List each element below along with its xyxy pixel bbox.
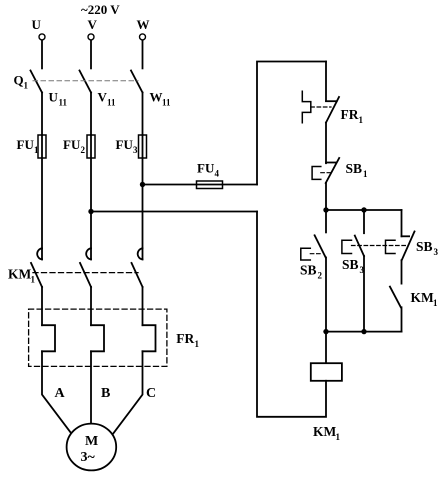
pushbutton SB2 (NO start) <box>301 210 326 260</box>
node junction bottom-left <box>323 329 328 334</box>
svg-text:FU: FU <box>63 137 81 152</box>
contactor KM1 main contact W (arc) <box>138 248 143 259</box>
svg-text:Q: Q <box>14 73 24 88</box>
wire V phase heater to motor <box>90 351 92 430</box>
thermal relay FR1 heater W <box>143 325 156 351</box>
wire control branch down to FR1 contact <box>325 62 327 102</box>
svg-text:V: V <box>98 90 108 105</box>
wire U phase drop from terminal <box>41 40 43 68</box>
terminal circle U <box>39 34 45 40</box>
svg-text:FU: FU <box>17 137 35 152</box>
svg-text:KM: KM <box>313 424 337 439</box>
svg-text:SB: SB <box>416 239 433 254</box>
svg-text:1: 1 <box>24 81 29 91</box>
wire W phase FU3 to KM1 contact <box>142 135 144 259</box>
thermal relay FR1 heater U <box>42 325 55 351</box>
svg-text:1: 1 <box>363 169 368 179</box>
label V11 <box>98 90 117 108</box>
thermal relay FR1 NC contact <box>302 91 339 122</box>
svg-text:FU: FU <box>197 161 215 176</box>
wire FR1 contact to SB1 <box>325 123 327 164</box>
label U11 <box>49 90 68 108</box>
fuse FU4 <box>197 181 223 189</box>
svg-text:KM: KM <box>8 267 32 282</box>
svg-text:11: 11 <box>107 98 116 108</box>
wire W phase Q1 to FU3 <box>142 93 144 136</box>
svg-text:1: 1 <box>359 115 364 125</box>
wire SB1 to junction <box>325 183 327 210</box>
svg-text:1: 1 <box>31 275 36 285</box>
node junction top-left of start buttons <box>323 207 328 212</box>
wire U phase KM1 to FR1 heater <box>41 287 43 325</box>
svg-text:FU: FU <box>116 137 134 152</box>
svg-text:1: 1 <box>433 298 438 308</box>
svg-text:1: 1 <box>336 432 341 442</box>
wire W phase drop from terminal <box>142 40 144 68</box>
coil KM1 <box>311 363 342 381</box>
wire SB3 NC to KM1 aux <box>401 260 403 283</box>
svg-text:SB: SB <box>342 257 359 272</box>
svg-text:11: 11 <box>59 98 68 108</box>
svg-text:M: M <box>85 434 98 449</box>
contactor KM1 main contact V (arc) <box>86 248 91 259</box>
svg-text:U: U <box>32 17 42 32</box>
wire SB2 to bottom wire <box>325 258 327 332</box>
wire V phase drop from terminal <box>90 40 92 68</box>
switch Q1 pole U <box>31 71 43 93</box>
svg-text:SB: SB <box>346 161 363 176</box>
wire junction to coil <box>325 332 327 364</box>
wire control feed from W phase to left rail <box>143 184 258 186</box>
switch Q1 pole W <box>131 71 143 93</box>
switch Q1 pole V <box>80 71 92 93</box>
svg-text:3~: 3~ <box>81 450 96 465</box>
terminal circle V <box>88 34 94 40</box>
label FR1 box <box>176 331 199 349</box>
contactor KM1 main contact U (arc) <box>37 248 42 259</box>
label FU3 <box>116 137 139 155</box>
label FU4 <box>197 161 220 179</box>
wire U phase heater to motor <box>42 351 74 437</box>
pushbutton SB3 NC contact <box>386 210 415 260</box>
wire W phase heater to motor <box>111 351 143 436</box>
contactor KM1 main contact W blade <box>132 263 143 287</box>
label Q1 <box>14 73 29 91</box>
label KM1 aux <box>411 290 439 308</box>
contactor KM1 main contact V blade <box>80 263 91 287</box>
wire W phase KM1 to FR1 heater <box>142 287 144 325</box>
switch Q1 mechanical linkage (dashed) <box>33 80 138 82</box>
svg-text:FR: FR <box>176 331 194 346</box>
svg-text:B: B <box>101 386 110 401</box>
fuse FU3 <box>139 135 147 158</box>
wire SB3 NO to bottom wire <box>363 256 365 332</box>
wire V phase Q1 to FU2 <box>90 93 92 136</box>
wire coil to bottom rail <box>257 212 326 417</box>
contactor KM1 main contact U blade <box>31 263 42 287</box>
node junction on W phase <box>140 182 145 187</box>
svg-text:3: 3 <box>434 247 439 257</box>
terminal V <box>88 17 98 32</box>
label FU2 <box>63 137 86 155</box>
svg-text:SB: SB <box>300 263 317 278</box>
label W11 <box>150 90 172 108</box>
terminal W <box>137 17 150 32</box>
thermal relay FR1 heater V <box>91 325 104 351</box>
wire V phase KM1 to FR1 heater <box>90 287 92 325</box>
label SB2 <box>300 263 323 281</box>
svg-text:11: 11 <box>162 98 171 108</box>
wire V phase FU2 to KM1 contact <box>90 135 92 259</box>
node junction on V phase <box>88 209 93 214</box>
node junction top-middle <box>361 207 366 212</box>
svg-text:A: A <box>55 386 66 401</box>
wire parallel branch bottom <box>326 331 402 333</box>
node junction bottom-middle <box>361 329 366 334</box>
label SB3 middle <box>342 257 365 275</box>
pushbutton SB3 NO contact <box>342 210 364 256</box>
fuse FU2 <box>87 135 95 158</box>
motor M 3~ <box>67 424 117 471</box>
thermal relay FR1 enclosure (dashed box) <box>29 309 167 366</box>
svg-text:KM: KM <box>411 290 435 305</box>
svg-text:2: 2 <box>318 271 323 281</box>
svg-text:1: 1 <box>34 145 39 155</box>
wire KM1 aux to bottom wire <box>401 307 403 331</box>
label SB1 <box>346 161 369 179</box>
wire left rail top (FU4 up to top wire) <box>257 62 326 185</box>
pushbutton SB1 (NC stop) <box>312 158 339 183</box>
wire parallel branch top <box>326 209 402 211</box>
svg-text:4: 4 <box>215 169 220 179</box>
svg-text:U: U <box>49 90 59 105</box>
contactor KM1 auxiliary contact (NO) <box>390 287 401 308</box>
contactor KM1 linkage (dashed) <box>33 272 138 274</box>
svg-text:1: 1 <box>195 339 200 349</box>
svg-text:3: 3 <box>133 145 138 155</box>
svg-text:~220 V: ~220 V <box>81 2 120 17</box>
svg-text:V: V <box>88 17 98 32</box>
svg-text:FR: FR <box>341 107 359 122</box>
linkage SB3 (dashed) <box>352 245 408 247</box>
svg-text:2: 2 <box>81 145 86 155</box>
svg-text:W: W <box>150 90 163 105</box>
svg-text:W: W <box>137 17 150 32</box>
svg-text:C: C <box>146 386 156 401</box>
label FU1 <box>17 137 40 155</box>
label KM1 coil <box>313 424 341 442</box>
terminal circle W <box>140 34 146 40</box>
label KM1 main <box>8 267 36 285</box>
wire control return from V phase to right rail <box>91 211 257 213</box>
terminal U <box>32 17 42 32</box>
wire U phase FU1 to KM1 contact <box>41 135 43 259</box>
fuse FU1 <box>38 135 46 158</box>
wire U phase Q1 to FU1 <box>41 93 43 136</box>
label SB3 right <box>416 239 439 257</box>
label FR1 contact <box>341 107 364 125</box>
